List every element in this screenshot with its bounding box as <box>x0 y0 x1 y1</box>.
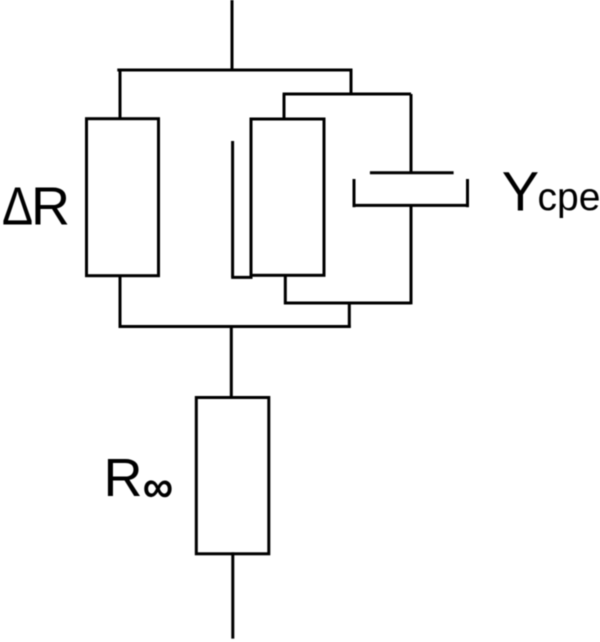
resistor R∞ body <box>196 398 268 554</box>
wire: top bus <box>117 69 352 72</box>
wire: bottom bus <box>119 325 351 328</box>
wire: top input lead <box>231 0 234 71</box>
wire: inner drop to inner resistor <box>283 94 286 120</box>
svg-text:cpe: cpe <box>538 176 600 219</box>
svg-text:Δ: Δ <box>2 175 33 236</box>
svg-text:Y: Y <box>502 160 539 223</box>
wire: inner top bus <box>283 93 411 96</box>
svg-text:∞: ∞ <box>143 463 173 510</box>
wire: inner bottom bus <box>284 302 411 305</box>
wire: bottom bus to R∞ <box>230 325 233 399</box>
stray plate hook (horizontal) <box>231 276 252 279</box>
wire: R∞ bottom lead <box>231 552 234 638</box>
CPE bottom bracket plate: right tick <box>466 179 469 207</box>
wire: inner resistor bottom drop <box>284 274 287 304</box>
resistor body (inner, unlabeled) <box>251 119 324 275</box>
CPE bottom bracket plate: bottom <box>353 204 469 207</box>
wire: CPE top lead <box>410 94 413 173</box>
wire: CPE bottom lead <box>410 205 413 304</box>
svg-text:R: R <box>104 448 143 508</box>
svg-text:R: R <box>31 177 70 237</box>
resistor ΔR body <box>87 119 159 276</box>
stray plate line at inner resistor left <box>231 141 234 277</box>
CPE bottom bracket plate: left tick <box>353 179 356 207</box>
wire: ΔR bottom lead <box>119 275 122 328</box>
wire: drop from top bus to resistor ΔR <box>119 70 122 120</box>
wire: right drop from top bus to inner top bus <box>350 69 353 96</box>
CPE top plate <box>370 171 454 174</box>
wire: drop from inner bottom bus to bottom bus <box>348 303 351 328</box>
